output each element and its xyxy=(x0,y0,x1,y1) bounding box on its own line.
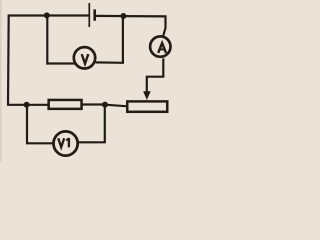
wire bottom-middle from left corner to resistor xyxy=(7,104,48,106)
wire V1 loop right: from V1 right and up to middle-right junction xyxy=(78,105,105,143)
wire voltmeter loop right: from V right and up to junction xyxy=(96,16,123,63)
wire from ammeter bottom with jog to wiper xyxy=(147,58,164,92)
label A of ammeter drawn as path xyxy=(158,43,166,53)
ammeter A circle xyxy=(150,36,170,56)
wire from rheostat left lead to middle junction xyxy=(105,105,126,107)
resistor R body rectangle xyxy=(49,100,82,109)
battery B1 long plate xyxy=(88,3,90,27)
rheostat (variable resistor) body rectangle xyxy=(127,101,167,111)
wire top left from corner to battery xyxy=(8,14,89,16)
voltmeter V1 circle xyxy=(54,131,78,155)
node dot junction top-left xyxy=(44,12,50,18)
label V of voltmeter drawn as path xyxy=(82,54,89,64)
wire top right from battery to corner and down to ammeter xyxy=(95,16,166,36)
node dot junction middle-left xyxy=(24,102,30,108)
battery B1 short plate xyxy=(93,9,96,20)
wire voltmeter loop left: down from junction and right to V xyxy=(47,15,75,63)
wire from resistor to middle-right junction xyxy=(83,103,106,105)
label V1 of voltmeter drawn as paths xyxy=(58,138,64,147)
wire left vertical side xyxy=(7,15,10,105)
node dot junction middle-right xyxy=(102,102,108,108)
wire V1 loop left: down from middle-left junction and right to V1 xyxy=(27,105,53,144)
wiper arrowhead of rheostat xyxy=(143,91,151,100)
node dot junction top-right xyxy=(120,13,126,19)
voltmeter V circle xyxy=(74,47,95,68)
